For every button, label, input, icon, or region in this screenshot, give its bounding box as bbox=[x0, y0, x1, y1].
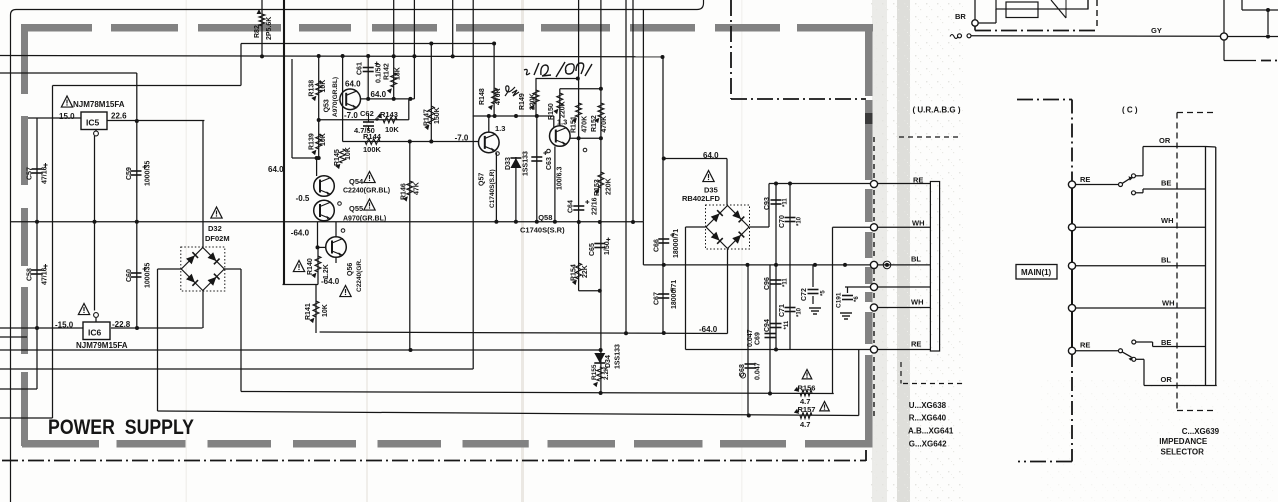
svg-text:220K: 220K bbox=[530, 93, 537, 110]
svg-text:A.B...XG641: A.B...XG641 bbox=[908, 427, 954, 436]
svg-text:18000/71: 18000/71 bbox=[671, 280, 678, 309]
svg-text:SELECTOR: SELECTOR bbox=[1161, 448, 1205, 457]
svg-text:R153: R153 bbox=[594, 179, 601, 196]
svg-text:R141: R141 bbox=[305, 303, 312, 320]
svg-text:G...XG642: G...XG642 bbox=[909, 440, 947, 449]
svg-text:Q53: Q53 bbox=[323, 99, 330, 112]
svg-text:C68: C68 bbox=[739, 364, 746, 377]
svg-text:100/6.3: 100/6.3 bbox=[557, 167, 564, 190]
svg-text:C94: C94 bbox=[764, 319, 771, 332]
svg-text:IC6: IC6 bbox=[88, 328, 102, 338]
svg-text:IMPEDANCE: IMPEDANCE bbox=[1159, 437, 1208, 446]
svg-text:10K: 10K bbox=[345, 147, 352, 160]
svg-text:R138: R138 bbox=[309, 80, 316, 97]
svg-text:1SS133: 1SS133 bbox=[615, 344, 622, 369]
svg-text:C71: C71 bbox=[779, 304, 786, 317]
svg-text:R82: R82 bbox=[254, 25, 261, 38]
svg-text:D32: D32 bbox=[208, 224, 222, 233]
svg-text:R154: R154 bbox=[571, 264, 578, 281]
svg-text:2P5.6K: 2P5.6K bbox=[266, 17, 273, 40]
svg-text:-15.0: -15.0 bbox=[55, 321, 74, 330]
svg-text:18000/71: 18000/71 bbox=[673, 229, 680, 258]
svg-text:R145: R145 bbox=[334, 149, 341, 166]
svg-text:BL: BL bbox=[1161, 256, 1171, 265]
svg-text:64.0: 64.0 bbox=[268, 165, 284, 174]
svg-text:R147: R147 bbox=[424, 109, 431, 126]
svg-text:*5: *5 bbox=[821, 290, 827, 296]
svg-text:470K: 470K bbox=[495, 88, 502, 105]
svg-text:*11: *11 bbox=[783, 198, 789, 207]
svg-text:220K: 220K bbox=[606, 178, 613, 195]
svg-text:C96: C96 bbox=[764, 277, 771, 290]
svg-text:OR: OR bbox=[1159, 136, 1171, 145]
svg-text:R152: R152 bbox=[591, 115, 598, 132]
svg-text:22K: 22K bbox=[582, 265, 589, 278]
svg-text:1000/35: 1000/35 bbox=[145, 263, 152, 288]
svg-text:22.6: 22.6 bbox=[111, 112, 127, 121]
svg-text:WH: WH bbox=[912, 219, 925, 228]
svg-text:NJM79M15FA: NJM79M15FA bbox=[76, 341, 128, 350]
svg-text:NJM78M15FA: NJM78M15FA bbox=[73, 100, 125, 109]
svg-text:-64.0: -64.0 bbox=[291, 229, 310, 238]
svg-text:*10: *10 bbox=[797, 216, 803, 226]
svg-text:R155: R155 bbox=[591, 364, 598, 380]
svg-text:C63: C63 bbox=[546, 157, 553, 170]
svg-text:C64: C64 bbox=[568, 200, 575, 213]
svg-text:POWER SUPPLY: POWER SUPPLY bbox=[48, 415, 194, 439]
svg-text:D33: D33 bbox=[505, 157, 512, 170]
svg-text:-0.5: -0.5 bbox=[296, 194, 310, 203]
svg-text:-22.8: -22.8 bbox=[112, 320, 131, 329]
svg-text:22/16: 22/16 bbox=[592, 197, 599, 215]
svg-text:R150: R150 bbox=[548, 103, 555, 120]
svg-text:RB402LFD: RB402LFD bbox=[682, 194, 721, 203]
svg-text:GY: GY bbox=[1151, 26, 1162, 35]
svg-text:C70: C70 bbox=[779, 215, 786, 228]
svg-text:A970(GR.BL): A970(GR.BL) bbox=[332, 77, 339, 117]
svg-text:R142: R142 bbox=[384, 63, 391, 80]
svg-text:C2240(GR.BL): C2240(GR.BL) bbox=[343, 188, 390, 195]
svg-text:OR: OR bbox=[1161, 375, 1173, 384]
svg-text:WH: WH bbox=[1162, 299, 1175, 308]
svg-text:( C ): ( C ) bbox=[1122, 106, 1138, 115]
svg-text:1000/35: 1000/35 bbox=[145, 161, 152, 186]
svg-text:C67: C67 bbox=[654, 292, 661, 305]
svg-text:RE: RE bbox=[1080, 175, 1090, 184]
svg-text:15.0: 15.0 bbox=[59, 112, 75, 121]
svg-text:R143: R143 bbox=[380, 110, 398, 119]
svg-text:R149: R149 bbox=[519, 93, 526, 110]
svg-text:MAIN(1): MAIN(1) bbox=[1021, 268, 1052, 277]
svg-text:18K: 18K bbox=[395, 67, 402, 80]
svg-text:R140: R140 bbox=[307, 258, 314, 275]
svg-text:0.047: 0.047 bbox=[755, 362, 762, 380]
svg-text:*10: *10 bbox=[797, 307, 803, 317]
svg-text:10K: 10K bbox=[320, 80, 327, 93]
svg-text:10K: 10K bbox=[320, 133, 327, 146]
svg-text:Q58: Q58 bbox=[538, 213, 552, 222]
svg-text:C60: C60 bbox=[126, 269, 133, 282]
svg-text:C93: C93 bbox=[764, 197, 771, 210]
svg-text:C59: C59 bbox=[126, 167, 133, 180]
svg-text:-7.0: -7.0 bbox=[344, 111, 358, 120]
svg-text:C69: C69 bbox=[755, 332, 762, 345]
svg-text:U...XG638: U...XG638 bbox=[909, 401, 947, 410]
svg-text:C65: C65 bbox=[589, 243, 596, 256]
svg-text:( U.R.A.B.G ): ( U.R.A.B.G ) bbox=[913, 106, 961, 115]
svg-text:R146: R146 bbox=[401, 183, 408, 200]
svg-text:R...XG640: R...XG640 bbox=[909, 414, 947, 423]
svg-text:R148: R148 bbox=[479, 88, 486, 105]
svg-text:R156: R156 bbox=[798, 384, 816, 393]
svg-text:C58: C58 bbox=[27, 268, 34, 281]
svg-text:R139: R139 bbox=[309, 133, 316, 150]
svg-text:-64.0: -64.0 bbox=[699, 325, 718, 334]
svg-text:R151: R151 bbox=[571, 116, 578, 133]
svg-text:47/16: 47/16 bbox=[42, 267, 49, 285]
svg-text:C191: C191 bbox=[836, 292, 843, 308]
svg-text:64.0: 64.0 bbox=[371, 90, 387, 99]
svg-text:470K: 470K bbox=[582, 116, 589, 133]
svg-text:47K: 47K bbox=[414, 182, 421, 195]
svg-text:Q54: Q54 bbox=[349, 177, 364, 186]
svg-text:BE: BE bbox=[1161, 338, 1171, 347]
svg-text:-7.0: -7.0 bbox=[455, 134, 469, 143]
svg-text:C1740S(S.R): C1740S(S.R) bbox=[489, 169, 496, 208]
svg-text:64.0: 64.0 bbox=[345, 80, 361, 89]
svg-text:C1740S(S.R): C1740S(S.R) bbox=[520, 226, 565, 235]
svg-text:220K: 220K bbox=[560, 101, 567, 118]
svg-text:0.1/50: 0.1/50 bbox=[376, 63, 383, 83]
svg-text:*11: *11 bbox=[783, 278, 789, 287]
svg-text:C57: C57 bbox=[27, 167, 34, 180]
svg-text:*11: *11 bbox=[784, 320, 790, 329]
svg-text:10K: 10K bbox=[385, 125, 399, 134]
svg-text:1.3: 1.3 bbox=[495, 124, 505, 133]
svg-text:1.2K: 1.2K bbox=[323, 264, 330, 279]
svg-text:A970(GR.BL): A970(GR.BL) bbox=[343, 216, 386, 223]
svg-text:*6: *6 bbox=[854, 296, 860, 302]
svg-text:D34: D34 bbox=[605, 355, 612, 368]
svg-text:64.0: 64.0 bbox=[703, 151, 719, 160]
svg-text:1SS133: 1SS133 bbox=[523, 151, 530, 176]
svg-text:C62: C62 bbox=[360, 109, 374, 118]
svg-text:DF02M: DF02M bbox=[205, 234, 230, 243]
svg-text:0.047: 0.047 bbox=[747, 329, 754, 347]
svg-text:4.7: 4.7 bbox=[800, 420, 810, 429]
svg-text:470K: 470K bbox=[601, 116, 608, 133]
svg-text:WH: WH bbox=[911, 298, 924, 307]
svg-text:RE: RE bbox=[913, 176, 923, 185]
svg-text:100K: 100K bbox=[363, 145, 382, 154]
svg-text:WH: WH bbox=[1161, 216, 1174, 225]
svg-text:150K: 150K bbox=[434, 107, 441, 124]
svg-text:10K: 10K bbox=[322, 304, 329, 317]
svg-text:C2240(GR.: C2240(GR. bbox=[356, 259, 363, 292]
svg-text:BL: BL bbox=[911, 255, 921, 264]
svg-text:BR: BR bbox=[955, 12, 966, 21]
svg-text:C66: C66 bbox=[654, 239, 661, 252]
svg-text:C...XG639: C...XG639 bbox=[1182, 427, 1220, 436]
svg-text:C61: C61 bbox=[357, 62, 364, 75]
svg-text:R157: R157 bbox=[798, 405, 816, 414]
svg-text:47/16: 47/16 bbox=[42, 166, 49, 184]
svg-text:R144: R144 bbox=[363, 132, 382, 141]
svg-text:RE: RE bbox=[1080, 341, 1090, 350]
svg-text:RE: RE bbox=[911, 340, 921, 349]
svg-text:Q57: Q57 bbox=[479, 173, 486, 186]
svg-text:Q56: Q56 bbox=[347, 263, 354, 276]
svg-text:BE: BE bbox=[1161, 179, 1171, 188]
svg-text:C72: C72 bbox=[801, 288, 808, 301]
svg-text:1/50: 1/50 bbox=[604, 241, 611, 255]
svg-text:IC5: IC5 bbox=[86, 118, 100, 128]
svg-text:Q55: Q55 bbox=[349, 204, 363, 213]
